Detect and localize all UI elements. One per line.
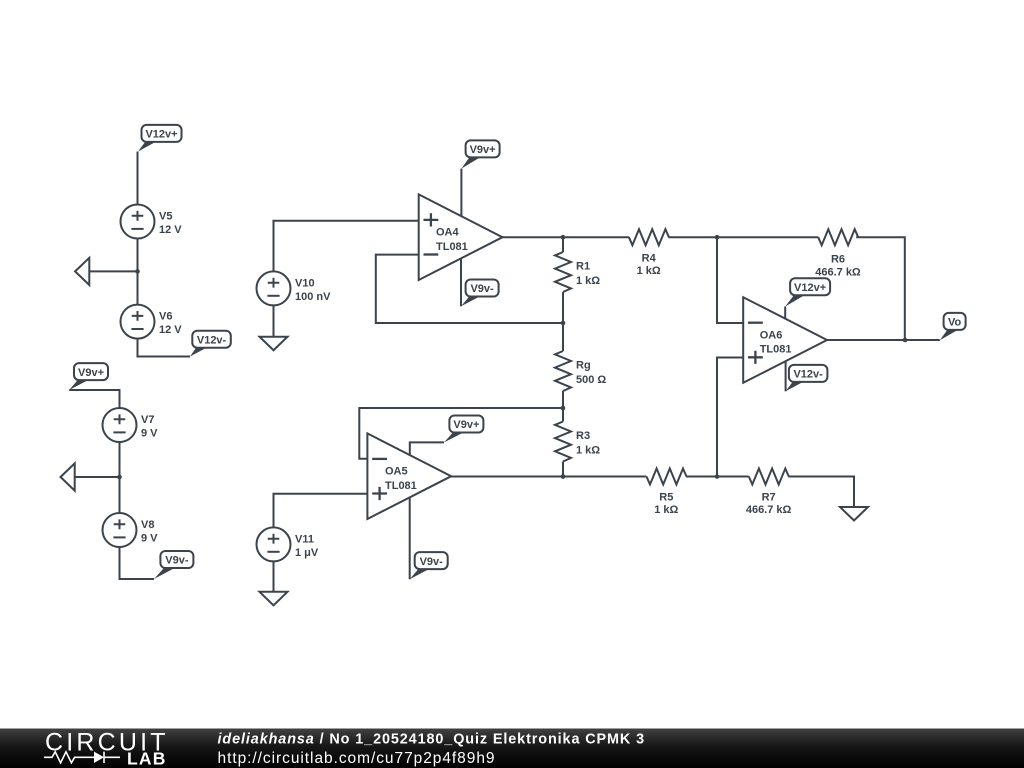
- wire V5 to V6: [137, 239, 139, 305]
- svg-text:V9v-: V9v-: [470, 283, 494, 295]
- svg-text:9 V: 9 V: [141, 533, 158, 545]
- svg-text:TL081: TL081: [385, 480, 417, 492]
- svg-text:1 kΩ: 1 kΩ: [576, 445, 600, 457]
- svg-text:1 kΩ: 1 kΩ: [637, 265, 661, 277]
- op-amp OA5 TL081: [367, 433, 451, 519]
- resistor R1 1 kΩ: [555, 252, 600, 292]
- junction R3 bottom node: [561, 474, 566, 479]
- svg-text:OA4: OA4: [436, 227, 460, 239]
- op-amp OA6 TL081: [743, 297, 827, 383]
- junction 12V rail mid: [135, 269, 140, 274]
- wire V7 to V8: [119, 442, 121, 513]
- voltage source V10 100 nV: [257, 271, 332, 305]
- svg-text:V9v-: V9v-: [420, 556, 444, 568]
- resistor Rg 500 Ω: [555, 351, 606, 391]
- svg-text:466.7 kΩ: 466.7 kΩ: [815, 267, 861, 279]
- footer bar: [0, 729, 1024, 768]
- svg-text:Rg: Rg: [576, 360, 591, 372]
- net flag V9v+: [69, 363, 108, 390]
- wire V10 to OA4 +in: [274, 221, 419, 272]
- junction OA4 out node: [561, 235, 566, 240]
- wire OA5 V- pin: [409, 498, 411, 580]
- svg-text:TL081: TL081: [760, 344, 792, 356]
- junction output node: [903, 338, 908, 343]
- svg-text:V6: V6: [159, 311, 172, 323]
- CircuitLab logo zigzag and diode: [44, 752, 120, 763]
- svg-text:V12v+: V12v+: [794, 282, 826, 294]
- wire OA4 output: [502, 236, 629, 238]
- net flag OA6 V12v+: [785, 278, 830, 306]
- net flag OA4 V9v-: [461, 280, 499, 307]
- wire OA5 feedback: [359, 408, 563, 459]
- wire OA5 V+ pin: [410, 442, 444, 455]
- svg-text:1 μV: 1 μV: [295, 547, 319, 559]
- svg-text:ideliakhansa / No 1_20524180_Q: ideliakhansa / No 1_20524180_Quiz Elektr…: [218, 732, 646, 748]
- net flag Vo: [940, 313, 966, 340]
- svg-text:12 V: 12 V: [159, 324, 182, 336]
- svg-text:R1: R1: [576, 261, 590, 273]
- junction R5-R7 node: [715, 474, 720, 479]
- svg-text:500 Ω: 500 Ω: [576, 374, 606, 386]
- wire V8 to V9v- flag: [120, 547, 155, 579]
- footer title: [218, 732, 646, 748]
- svg-text:R7: R7: [762, 492, 776, 504]
- net flag V12v+: [138, 125, 182, 152]
- voltage source V11 1 μV: [257, 527, 319, 561]
- svg-text:12 V: 12 V: [159, 224, 182, 236]
- svg-text:V8: V8: [141, 519, 154, 531]
- svg-text:466.7 kΩ: 466.7 kΩ: [746, 504, 792, 516]
- net flag OA6 V12v-: [786, 365, 828, 391]
- wire R1 top stub: [562, 237, 564, 252]
- wire OA6 V- pin: [785, 362, 787, 392]
- junction 9V rail mid: [117, 475, 122, 480]
- wire V12v+ to V5: [137, 152, 139, 205]
- wire R4 to node: [668, 236, 818, 238]
- wire OA4 V- pin: [460, 258, 462, 306]
- op-amp OA4 TL081: [419, 194, 503, 280]
- net flag V12v-: [190, 331, 231, 357]
- svg-text:R5: R5: [659, 492, 673, 504]
- ground below V10: [260, 337, 288, 351]
- voltage source V7 9 V: [103, 408, 159, 442]
- CircuitLab logo text CIRCUIT: [45, 728, 169, 756]
- wire R6 to corner: [856, 237, 905, 340]
- svg-text:V10: V10: [295, 277, 315, 289]
- svg-text:R3: R3: [576, 430, 590, 442]
- wire R7 to ground: [788, 477, 854, 508]
- svg-text:Vo: Vo: [948, 317, 962, 329]
- svg-text:1 kΩ: 1 kΩ: [654, 504, 678, 516]
- wire R3 bottom stub: [562, 462, 564, 477]
- svg-text:V12v-: V12v-: [793, 369, 823, 381]
- wire R5 to node: [686, 476, 749, 478]
- wire V9v+ flag to V7: [69, 390, 119, 408]
- wire V6 to V12v- flag: [138, 339, 191, 357]
- CircuitLab logo text LAB: [127, 749, 167, 768]
- net flag OA5 V9v-: [410, 552, 448, 579]
- wire V11 to ground: [273, 561, 275, 591]
- svg-text:OA5: OA5: [385, 466, 408, 478]
- svg-text:V9v+: V9v+: [453, 419, 479, 431]
- resistor R6 466.7 kΩ: [815, 229, 861, 279]
- svg-text:V5: V5: [159, 211, 172, 223]
- net flag OA5 V9v+: [444, 416, 483, 443]
- svg-text:1 kΩ: 1 kΩ: [576, 275, 600, 287]
- resistor R3 1 kΩ: [555, 422, 600, 462]
- resistor R4 1 kΩ: [629, 229, 669, 277]
- junction OA5 out node: [561, 474, 566, 479]
- svg-text:OA6: OA6: [760, 329, 783, 341]
- resistor R7 466.7 kΩ: [746, 469, 792, 517]
- wire mid rail to arrow: [89, 270, 137, 272]
- wire Rg-R3 link: [562, 391, 564, 422]
- voltage source V8 9 V: [103, 513, 159, 547]
- wire OA6 -in: [717, 237, 743, 323]
- junction R4-R6 node: [715, 235, 720, 240]
- svg-text:V9v+: V9v+: [78, 367, 104, 379]
- wire OA6 +in: [717, 358, 743, 477]
- svg-text:9 V: 9 V: [141, 428, 158, 440]
- wire OA6 output: [827, 339, 940, 341]
- ground right of R7: [840, 507, 868, 521]
- svg-text:V12v-: V12v-: [197, 334, 227, 346]
- wire 9V rail to arrow: [75, 476, 120, 478]
- svg-text:V9v+: V9v+: [470, 144, 496, 156]
- wire OA4 feedback: [376, 255, 563, 323]
- junction R1-Rg node: [561, 321, 566, 326]
- wire V10 to ground: [273, 305, 275, 336]
- svg-text:LAB: LAB: [127, 749, 167, 768]
- footer url: [218, 750, 496, 767]
- svg-text:V9v-: V9v-: [165, 555, 189, 567]
- voltage source V6 12 V: [121, 305, 183, 339]
- wire OA5 output: [451, 476, 646, 478]
- voltage source V5 12 V: [121, 205, 183, 239]
- net flag OA4 V9v+: [461, 140, 499, 168]
- svg-text:V12v+: V12v+: [145, 129, 177, 141]
- ground below V11: [260, 592, 288, 606]
- net flag V9v-: [154, 551, 193, 579]
- ground arrow 9V rail common: [60, 463, 74, 490]
- svg-text:http://circuitlab.com/cu77p2p4: http://circuitlab.com/cu77p2p4f89h9: [218, 750, 496, 767]
- wire R1-Rg link: [562, 292, 564, 351]
- wire V11 to OA5 +in: [274, 494, 368, 528]
- resistor R5 1 kΩ: [647, 469, 687, 517]
- svg-text:R6: R6: [831, 253, 845, 265]
- ground arrow left rail common: [75, 258, 89, 285]
- svg-text:100 nV: 100 nV: [295, 291, 331, 303]
- svg-text:V11: V11: [295, 533, 314, 545]
- junction Rg-R3 node: [561, 406, 566, 411]
- svg-text:R4: R4: [642, 253, 657, 265]
- svg-text:V7: V7: [141, 414, 154, 426]
- wire OA6 V+ pin: [784, 307, 786, 319]
- svg-text:TL081: TL081: [436, 241, 468, 253]
- wire OA4 V+ pin: [460, 169, 462, 217]
